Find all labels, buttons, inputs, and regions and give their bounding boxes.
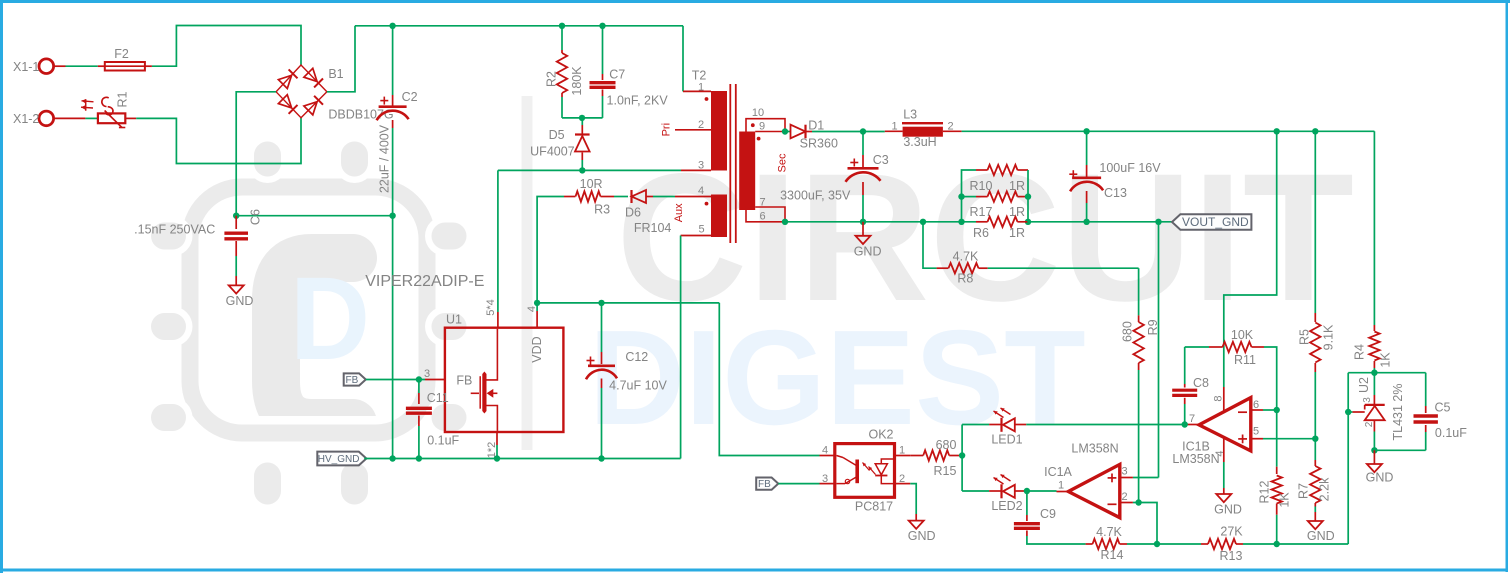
- terminal X1-1: [39, 59, 54, 74]
- node R15 / LED branch: [959, 452, 965, 458]
- svg-text:C6: C6: [249, 209, 263, 225]
- svg-text:7: 7: [759, 196, 765, 208]
- svg-text:2: 2: [1121, 491, 1127, 503]
- node R17 right: [1025, 193, 1031, 199]
- capacitor C9: [1026, 491, 1028, 515]
- svg-text:FB: FB: [346, 375, 359, 386]
- svg-text:1R: 1R: [1009, 226, 1025, 240]
- svg-text:C12: C12: [625, 350, 648, 364]
- wire R13 to TL431 ref: [1243, 543, 1348, 545]
- node R4 / TL431 cathode: [1371, 370, 1377, 376]
- svg-text:GND: GND: [226, 294, 254, 308]
- svg-text:R8: R8: [957, 272, 973, 286]
- ground GND below C3: [862, 222, 864, 236]
- wire FB to U1 pin3: [366, 379, 425, 381]
- label FB (U1 feedback): [344, 373, 366, 385]
- svg-text:C13: C13: [1104, 186, 1127, 200]
- wire D1 to L3: [812, 131, 885, 133]
- wire output rail: [962, 130, 1375, 132]
- node pin6: [1274, 407, 1280, 413]
- svg-text:3: 3: [822, 473, 828, 485]
- svg-text:C5: C5: [1435, 400, 1451, 414]
- svg-text:5: 5: [698, 223, 704, 235]
- wire LED branch vertical: [961, 425, 963, 492]
- svg-text:4: 4: [822, 445, 828, 457]
- wire vout gnd to IC1A pin3: [1158, 222, 1160, 478]
- resistor R7 2.2k: [1314, 439, 1316, 460]
- svg-text:2: 2: [947, 120, 953, 132]
- svg-text:22uF / 400V: 22uF / 400V: [377, 124, 391, 193]
- svg-text:3: 3: [1362, 397, 1373, 403]
- svg-text:C8: C8: [1193, 376, 1209, 390]
- svg-text:IC1A: IC1A: [1044, 465, 1072, 479]
- svg-text:1.0nF, 2KV: 1.0nF, 2KV: [607, 93, 669, 107]
- svg-text:Sec: Sec: [776, 153, 788, 172]
- capacitor C11: [418, 380, 420, 394]
- wire HV_GND rail: [364, 458, 680, 460]
- label VOUT_GND: [1172, 214, 1251, 229]
- capacitor C2: [392, 26, 394, 95]
- svg-text:1R: 1R: [1009, 179, 1025, 193]
- node rail C12: [598, 455, 604, 461]
- svg-text:LM358N: LM358N: [1071, 442, 1118, 456]
- wire pin2 jog to bottom rail: [1139, 503, 1157, 545]
- svg-text:2: 2: [1364, 421, 1375, 427]
- node rail C2 branch: [389, 455, 395, 461]
- svg-text:R3: R3: [594, 202, 610, 216]
- ground GND below C6: [229, 285, 244, 293]
- svg-text:4: 4: [526, 306, 538, 312]
- node top rail / R2: [559, 23, 565, 29]
- resistor R5 9.1K: [1314, 131, 1316, 313]
- svg-text:L3: L3: [903, 108, 917, 122]
- node rail R5: [1312, 128, 1318, 134]
- node sec bottom: [782, 219, 788, 225]
- wire bridge right to top rail: [327, 26, 355, 92]
- wire ref vertical: [1347, 373, 1349, 544]
- svg-text:2: 2: [899, 473, 905, 485]
- svg-text:UF4007: UF4007: [530, 145, 575, 159]
- wire VDD to optocoupler pin4: [719, 303, 819, 456]
- svg-text:3: 3: [424, 368, 430, 380]
- ic U1 VIPER22ADIP-E box: [445, 328, 564, 432]
- svg-text:9: 9: [759, 120, 765, 132]
- svg-text:R17: R17: [970, 205, 993, 219]
- svg-text:FR104: FR104: [634, 221, 672, 235]
- svg-text:R12: R12: [1257, 480, 1271, 503]
- svg-text:27K: 27K: [1220, 524, 1243, 538]
- optocoupler OK2 PC817: [835, 444, 895, 498]
- wire F2 to bridge top: [145, 65, 152, 67]
- svg-text:VIPER22ADIP-E: VIPER22ADIP-E: [365, 273, 484, 290]
- svg-text:3: 3: [698, 159, 704, 171]
- pin OK2 pin4 stub: [820, 455, 835, 457]
- svg-text:4: 4: [698, 185, 704, 197]
- svg-text:100uF 16V: 100uF 16V: [1099, 161, 1161, 175]
- node D5 bottom: [579, 167, 585, 173]
- pin IC1B pin5 stub: [1251, 438, 1263, 440]
- svg-text:9.1K: 9.1K: [1321, 324, 1335, 350]
- svg-text:C9: C9: [1040, 507, 1056, 521]
- svg-text:4.7K: 4.7K: [1096, 525, 1122, 539]
- node top rail / C2: [389, 23, 395, 29]
- resistor R10 1R: [962, 170, 977, 222]
- svg-text:D6: D6: [625, 205, 641, 219]
- svg-text:R5: R5: [1297, 329, 1311, 345]
- svg-text:GND: GND: [1307, 529, 1335, 543]
- pin OK2 pin1 stub: [895, 455, 911, 457]
- pin IC1B pin7 stub: [1186, 424, 1199, 426]
- svg-text:7: 7: [1189, 413, 1195, 425]
- node bottom rail pin2: [1154, 541, 1160, 547]
- node C6 row right: [389, 213, 395, 219]
- watermark separator bar: [522, 96, 533, 450]
- node LED2 / C9: [1024, 488, 1030, 494]
- node rail U1 source: [494, 455, 500, 461]
- svg-text:3300uF, 35V: 3300uF, 35V: [780, 189, 851, 203]
- node gnd rail R6 right: [1025, 219, 1031, 225]
- node pin5: [1312, 436, 1318, 442]
- resistor R9 680: [1138, 268, 1140, 315]
- node TL431 anode: [1371, 447, 1377, 453]
- led LED1: [962, 424, 989, 426]
- svg-text:R4: R4: [1352, 344, 1366, 360]
- svg-text:1: 1: [1058, 479, 1064, 491]
- node C3 top: [860, 128, 866, 134]
- diode D1 SR360: [785, 131, 790, 133]
- resistor R4 1K: [1373, 131, 1375, 325]
- shunt regulator U2 TL431: [1373, 373, 1375, 395]
- wire R2-C7 junction row: [562, 117, 603, 119]
- svg-text:3: 3: [1121, 465, 1127, 477]
- node gnd rail C13: [1083, 219, 1089, 225]
- led LED2: [962, 490, 989, 492]
- svg-text:B1: B1: [328, 67, 343, 81]
- mosfet inside U1: [482, 372, 486, 414]
- svg-text:R13: R13: [1220, 549, 1243, 563]
- svg-text:1: 1: [892, 120, 898, 132]
- wire X1-2 to R1: [85, 117, 97, 119]
- svg-text:D: D: [290, 253, 370, 385]
- svg-text:DBDB107G: DBDB107G: [328, 108, 393, 122]
- wire C6 row: [236, 215, 392, 217]
- wire R1 to bridge bottom: [125, 117, 136, 119]
- wire LED2 to IC1A pin1: [1027, 490, 1057, 492]
- svg-text:R15: R15: [934, 464, 957, 478]
- svg-text:0.1uF: 0.1uF: [427, 433, 459, 447]
- wire X1-1 to F2: [66, 65, 98, 67]
- resistor R15 680: [910, 455, 923, 457]
- svg-text:SR360: SR360: [800, 137, 838, 151]
- node pin3 / C11: [416, 376, 422, 382]
- svg-text:FB: FB: [456, 373, 472, 387]
- node gnd rail R8: [920, 219, 926, 225]
- node rail vcc branch: [1274, 128, 1280, 134]
- node VDD pin4: [534, 300, 540, 306]
- svg-text:2.2k: 2.2k: [1317, 477, 1331, 501]
- svg-text:C2: C2: [402, 90, 418, 104]
- svg-text:R2: R2: [544, 71, 558, 87]
- capacitor C6: [235, 216, 237, 229]
- svg-text:Aux: Aux: [673, 203, 685, 222]
- svg-text:680: 680: [1120, 321, 1134, 342]
- page border frame: [0, 0, 1510, 3]
- pin T2 pin7 loop: [755, 207, 785, 222]
- svg-text:6: 6: [759, 211, 765, 223]
- svg-text:R14: R14: [1101, 548, 1124, 562]
- svg-text:10R: 10R: [580, 177, 603, 191]
- svg-text:6: 6: [1253, 399, 1259, 411]
- diode D5 UF4007: [581, 118, 583, 125]
- pin T2 pin6 stub: [746, 210, 785, 222]
- svg-text:1K: 1K: [1277, 492, 1291, 508]
- wire HV vertical from C6 row to HV_GND rail: [392, 216, 394, 459]
- svg-text:GND: GND: [854, 245, 882, 259]
- ground GND below IC1B: [1216, 494, 1231, 502]
- varistor R1: [98, 113, 125, 123]
- svg-text:.15nF 250VAC: .15nF 250VAC: [134, 223, 215, 237]
- svg-text:R1: R1: [116, 91, 130, 107]
- svg-text:4.7uF 10V: 4.7uF 10V: [609, 378, 667, 392]
- svg-text:R11: R11: [1234, 353, 1256, 367]
- svg-text:D1: D1: [808, 119, 824, 133]
- svg-text:GND: GND: [1366, 470, 1394, 484]
- svg-text:GND: GND: [1214, 502, 1242, 516]
- svg-text:1R: 1R: [1009, 205, 1025, 219]
- svg-text:LED1: LED1: [991, 432, 1022, 446]
- svg-text:3.3uH: 3.3uH: [903, 135, 936, 149]
- node bottom rail R12: [1274, 541, 1280, 547]
- wire FB to OK2 pin3: [778, 483, 819, 485]
- resistor R14 4.7K: [1086, 543, 1093, 545]
- svg-text:180K: 180K: [570, 66, 584, 96]
- resistor R3 10R: [537, 197, 564, 303]
- svg-text:4.7K: 4.7K: [953, 249, 979, 263]
- svg-text:R6: R6: [973, 226, 989, 240]
- svg-text:1: 1: [698, 81, 704, 93]
- svg-text:PC817: PC817: [855, 500, 893, 514]
- pin T2 pin9 stub: [755, 131, 785, 133]
- svg-text:FB: FB: [758, 479, 771, 490]
- op-amp IC1A LM358N: [1068, 464, 1120, 517]
- label HV_GND: [317, 452, 366, 466]
- diode D6 FR104: [614, 196, 628, 198]
- svg-text:R10: R10: [970, 179, 993, 193]
- pin IC1A pin2 stub: [1120, 502, 1133, 504]
- node sec top: [782, 128, 788, 134]
- resistor R11 10K: [1185, 346, 1209, 348]
- pin IC1B pin6 stub: [1251, 409, 1263, 411]
- node VDD C12: [598, 300, 604, 306]
- wire T2 pin1 from top rail: [682, 26, 684, 92]
- svg-text:U1: U1: [446, 312, 462, 326]
- ground GND below R7: [1308, 521, 1323, 529]
- node rail C13: [1083, 128, 1089, 134]
- svg-text:8: 8: [1212, 395, 1224, 401]
- resistor R2 180K: [561, 26, 563, 50]
- svg-text:VOUT_GND: VOUT_GND: [1182, 215, 1249, 229]
- ground GND below OK2: [909, 521, 924, 529]
- svg-text:D5: D5: [549, 128, 565, 142]
- node rail C11: [416, 455, 422, 461]
- svg-text:2: 2: [698, 119, 704, 131]
- wire LED1 to IC1B pin7: [1026, 424, 1184, 426]
- capacitor C3: [862, 132, 864, 156]
- node gnd rail R6 left: [958, 219, 964, 225]
- svg-text:Pri: Pri: [661, 123, 673, 136]
- pin OK2 pin2 stub: [895, 483, 911, 485]
- svg-text:C11: C11: [427, 391, 449, 405]
- pin T2 pin10 loop: [746, 119, 785, 132]
- wire U1 pin 1*2 to rail: [496, 432, 498, 445]
- svg-text:680: 680: [936, 438, 957, 452]
- terminal X1-2: [39, 111, 54, 126]
- wire U1 pin 4 stub: [536, 303, 538, 311]
- resistor R12 1K: [1276, 410, 1278, 467]
- svg-text:1: 1: [899, 445, 905, 457]
- svg-text:C7: C7: [609, 67, 625, 81]
- wire R9 to IC1A pin2: [1138, 370, 1140, 503]
- wire bridge left to C6 node: [236, 92, 276, 216]
- svg-text:0.1uF: 0.1uF: [1435, 426, 1467, 440]
- resistor R8 4.7K: [923, 222, 937, 268]
- node R2/C7/D5: [579, 115, 585, 121]
- wire top rail: [355, 25, 683, 27]
- capacitor C7: [602, 26, 604, 74]
- svg-text:1K: 1K: [1378, 352, 1392, 368]
- svg-text:X1-1: X1-1: [13, 60, 39, 74]
- wire OK2 pin2 to ground: [910, 484, 916, 514]
- label FB (optocoupler): [756, 478, 778, 490]
- pin IC1A pin3 stub: [1120, 477, 1133, 479]
- svg-text:F2: F2: [114, 47, 129, 61]
- wire secondary ground rail: [785, 221, 976, 223]
- node top rail / C7: [599, 23, 605, 29]
- capacitor C8: [1184, 347, 1186, 384]
- watermark circuitdigest chip logo: [276, 258, 353, 423]
- wire R14 to R13: [1127, 543, 1201, 545]
- pin OK2 pin3 stub: [820, 483, 835, 485]
- svg-text:4: 4: [1214, 450, 1226, 456]
- svg-text:5*4: 5*4: [485, 299, 497, 316]
- node gnd rail vout: [1155, 219, 1161, 225]
- wire R8 to R9: [988, 267, 1139, 269]
- wire drain vertical to U1 pin 5*4: [497, 170, 499, 312]
- capacitor C13: [1086, 131, 1088, 165]
- node C6 row left: [233, 213, 239, 219]
- bridge rectifier B1: [276, 65, 327, 118]
- inductor L3: [885, 130, 903, 132]
- svg-text:VDD: VDD: [530, 336, 544, 362]
- wire anode row to C5: [1374, 449, 1425, 451]
- resistor R6 1R: [976, 221, 988, 223]
- svg-text:LM358N: LM358N: [1172, 452, 1219, 466]
- svg-text:HV_GND: HV_GND: [318, 454, 360, 465]
- svg-text:OK2: OK2: [868, 427, 893, 441]
- capacitor C5: [1425, 373, 1427, 406]
- wire vcc branch to op-amp pin8: [1224, 131, 1277, 387]
- svg-text:U2: U2: [1357, 377, 1371, 393]
- svg-text:10K: 10K: [1231, 328, 1254, 342]
- pin T2 pin5 stub: [681, 235, 711, 237]
- fuse F2: [105, 62, 145, 71]
- node R17 left: [958, 193, 964, 199]
- pin T2 pin3 stub: [681, 169, 711, 171]
- wire T2 pin5 to HV_GND rail: [680, 236, 682, 459]
- pin T2 pin2 stub: [675, 129, 711, 131]
- svg-text:LED2: LED2: [991, 499, 1022, 513]
- svg-text:TL431 2%: TL431 2%: [1391, 384, 1405, 441]
- wire VDD row: [537, 302, 719, 304]
- svg-text:X1-2: X1-2: [13, 112, 39, 126]
- svg-text:10: 10: [752, 107, 764, 119]
- resistor R13 27K: [1201, 543, 1208, 545]
- node IC1A pin2 / R9: [1135, 499, 1141, 505]
- pin IC1B pin4 to ground: [1223, 437, 1225, 462]
- pin T2 pin4 stub: [675, 196, 711, 198]
- node gnd rail C3: [860, 219, 866, 225]
- node ref: [1345, 409, 1351, 415]
- resistor R17 1R: [962, 196, 977, 198]
- op-amp IC1B LM358N: [1199, 398, 1251, 451]
- wire TL431 top loop: [1373, 368, 1375, 373]
- capacitor C12: [601, 303, 603, 352]
- svg-text:GND: GND: [908, 529, 936, 543]
- svg-text:C3: C3: [873, 153, 889, 167]
- node pin7 / C8 / LED1: [1182, 421, 1188, 427]
- svg-text:5: 5: [1253, 425, 1259, 437]
- svg-text:R7: R7: [1296, 483, 1310, 499]
- wire drain row D5 to T2 pin3: [498, 169, 681, 171]
- ground GND below TL431: [1373, 450, 1375, 464]
